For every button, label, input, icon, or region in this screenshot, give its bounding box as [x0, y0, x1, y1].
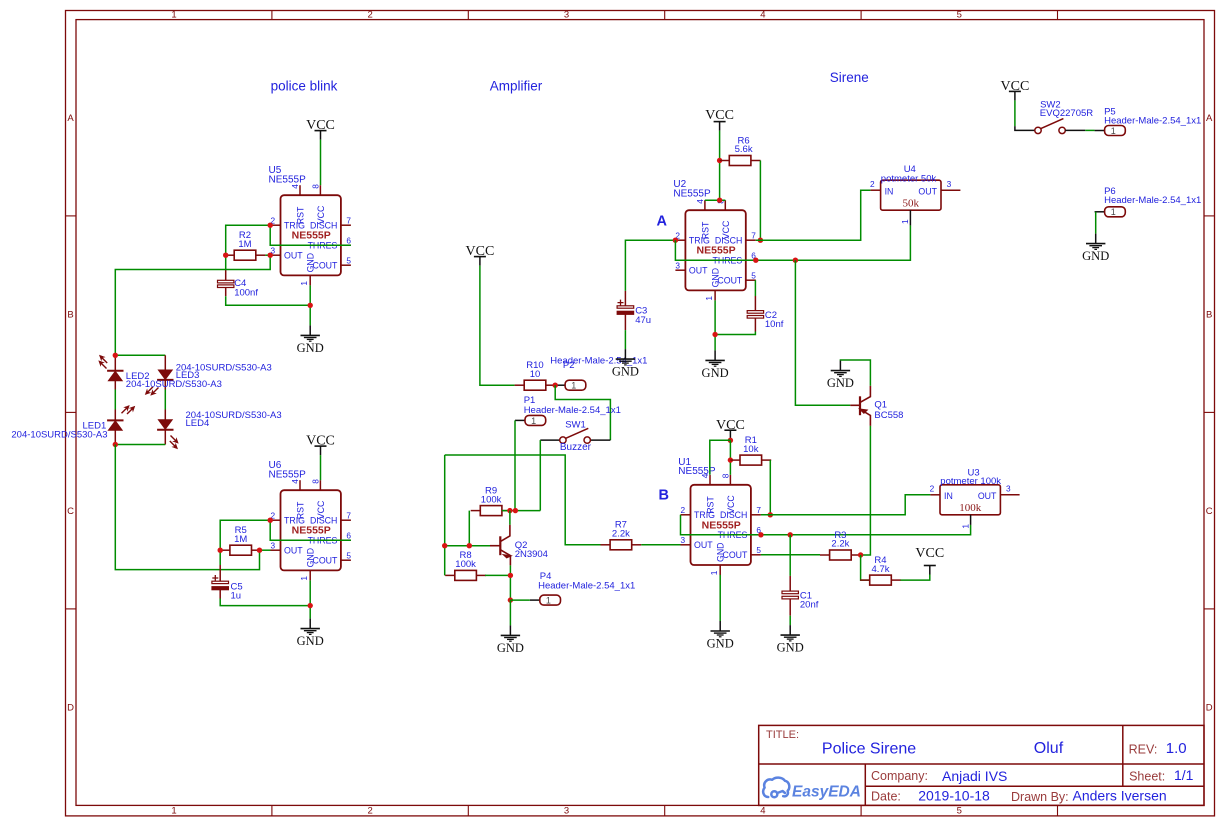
wire VCC down to U2 pins 4+8	[719, 131, 721, 201]
capacitor C2	[747, 311, 763, 319]
svg-text:VCC: VCC	[1001, 79, 1030, 94]
wire C1 bottom pin	[789, 599, 791, 616]
svg-text:potmeter 100k: potmeter 100k	[940, 476, 1001, 487]
ruler numbers top	[171, 10, 962, 21]
capacitor C1	[782, 591, 798, 599]
svg-text:5: 5	[957, 806, 962, 817]
U2 pin stubs	[675, 200, 755, 300]
power symbol VCC (R4 pullup)	[915, 546, 944, 575]
timer IC U5 NE555P	[271, 184, 352, 286]
svg-text:OUT: OUT	[918, 187, 937, 197]
power symbol VCC (SW2 feed)	[1001, 79, 1030, 100]
transistor Q2 2N3904 (NPN)	[490, 525, 511, 566]
junction U2 pin8 top node	[717, 198, 722, 203]
svg-text:Police Sirene: Police Sirene	[822, 740, 916, 757]
wire R6 right down to DISCH	[759, 161, 761, 241]
transistor Q1 BC558 (PNP)	[850, 386, 870, 426]
svg-text:NE555P: NE555P	[269, 469, 307, 480]
wire U2 DISCH line to U4	[756, 190, 871, 240]
rev/sheet column divider	[1122, 725, 1124, 786]
wire R7 to U1 OUT	[641, 544, 680, 546]
svg-text:7: 7	[346, 510, 351, 520]
svg-text:100k: 100k	[455, 559, 476, 570]
junction U5 GND node	[308, 303, 313, 308]
capacitor C4 100nf	[218, 280, 234, 287]
junction C1 branch node	[788, 532, 793, 537]
wire SW2 to P5	[1085, 129, 1094, 131]
junction U6 OUT branch node	[257, 548, 262, 553]
svg-text:VCC: VCC	[716, 418, 745, 433]
wire C1 to GND	[789, 616, 791, 625]
wire U1 TRIG-THRES jog + line to U3 wiper	[681, 515, 971, 535]
U6 body	[281, 490, 341, 570]
header P1 Header-Male-2.54_1x1	[515, 415, 546, 425]
resistor R9 100k	[471, 485, 512, 515]
junction R6-DISCH node	[758, 238, 763, 243]
wire C1 top pin	[789, 576, 791, 591]
svg-text:Company:: Company:	[871, 769, 928, 783]
junction U6 GND node	[308, 603, 313, 608]
svg-text:1u: 1u	[231, 591, 242, 602]
svg-text:OUT: OUT	[689, 266, 708, 276]
wire R9 right to collector node	[502, 510, 540, 512]
svg-text:Header-Male-2.54_1x1: Header-Male-2.54_1x1	[524, 405, 621, 416]
junction U2 THRES node	[753, 258, 758, 263]
header P5 Header-Male-2.54_1x1	[1095, 126, 1126, 136]
U1 pin stubs	[681, 475, 761, 575]
wire C4 bottom pin	[225, 288, 227, 297]
wire C1 branch down	[789, 535, 791, 576]
svg-text:Anjadi IVS: Anjadi IVS	[942, 768, 1007, 784]
svg-text:potmeter 50k: potmeter 50k	[881, 174, 937, 185]
SW1 blade	[566, 428, 589, 438]
svg-text:Sheet:: Sheet:	[1129, 769, 1165, 783]
svg-text:A: A	[67, 113, 74, 124]
logo cell divider	[864, 764, 866, 805]
Q1 emitter arrowhead (PNP, points to base)	[860, 409, 867, 413]
wire U2 TRIG-THRES jog + ramp line	[675, 225, 910, 260]
svg-text:GND: GND	[716, 542, 726, 562]
svg-text:10: 10	[530, 369, 541, 380]
svg-text:1M: 1M	[238, 239, 251, 250]
svg-text:OUT: OUT	[284, 251, 303, 261]
junction R5 left rail node	[218, 548, 223, 553]
svg-text:100k: 100k	[959, 502, 982, 514]
junction U1 THRES node	[758, 532, 763, 537]
svg-text:2: 2	[367, 10, 372, 21]
svg-text:COUT: COUT	[717, 276, 743, 286]
wire U6 pin1 to GND	[309, 580, 311, 618]
wire LED2 top pin	[114, 355, 116, 371]
svg-text:100k: 100k	[481, 494, 502, 505]
ground symbol GND (U6)	[297, 619, 324, 649]
svg-text:VCC: VCC	[306, 434, 335, 449]
ruler numbers bottom	[171, 806, 962, 817]
svg-text:1: 1	[1111, 207, 1116, 217]
resistor R2 1M	[225, 230, 266, 260]
svg-text:5: 5	[756, 545, 761, 555]
svg-text:D: D	[1206, 703, 1213, 714]
svg-text:Q1: Q1	[874, 400, 887, 411]
svg-text:Sirene: Sirene	[830, 70, 869, 85]
wire LED1 bottom pin	[114, 430, 116, 444]
svg-text:EVQ22705R: EVQ22705R	[1040, 108, 1093, 119]
svg-text:BC558: BC558	[874, 410, 903, 421]
svg-text:4: 4	[695, 199, 705, 204]
junction R8-emitter node	[508, 573, 513, 578]
wire feedback line to R7	[445, 455, 601, 545]
junction P4 node	[508, 597, 513, 602]
svg-text:3: 3	[1006, 483, 1011, 493]
svg-text:6: 6	[346, 235, 351, 245]
logo key stem	[777, 791, 785, 793]
LED LED2	[107, 371, 123, 381]
svg-text:COUT: COUT	[722, 550, 748, 560]
svg-text:1M: 1M	[234, 534, 247, 545]
wire U1 DISCH line to U3	[761, 495, 931, 515]
wire LED bottom crossbar	[115, 444, 165, 446]
svg-text:COUT: COUT	[312, 556, 338, 566]
junction P1-collector node B	[513, 508, 518, 513]
SW2 blade	[1041, 119, 1064, 129]
header P2 Header-Male-2.54_1x1	[555, 380, 586, 390]
capacitor C3 (polarized)	[617, 300, 634, 315]
wire R8 right to emitter node	[485, 574, 510, 576]
svg-text:3: 3	[681, 535, 686, 545]
U1 body	[691, 485, 751, 565]
svg-text:2N3904: 2N3904	[515, 549, 548, 560]
svg-text:1: 1	[531, 416, 536, 426]
wire Q1 emitter down to R3-R4 node	[861, 426, 871, 555]
junction U6 TRIG node	[268, 518, 273, 523]
junction R3-R4-Q1 node	[858, 552, 863, 557]
svg-text:1: 1	[960, 524, 970, 529]
svg-text:GND: GND	[306, 548, 316, 568]
wire LED2-LED1 link wire	[114, 390, 116, 410]
wire C3 to GND	[624, 330, 626, 349]
svg-text:B: B	[67, 310, 73, 321]
junction R1 left node	[728, 457, 733, 462]
timer IC U2 NE555P	[675, 199, 756, 301]
svg-text:Buzzer: Buzzer	[560, 442, 592, 453]
wire U5 pin1 to GND node	[309, 285, 311, 325]
wire C2 top pin	[754, 296, 756, 311]
svg-text:1/1: 1/1	[1174, 767, 1194, 783]
wire U2 RST-VCC jumper	[705, 199, 725, 201]
resistor R1 10k	[730, 435, 771, 465]
wire node to P4	[510, 599, 529, 601]
wire LED2-LED1 link lower pin	[114, 381, 116, 390]
svg-text:4: 4	[760, 806, 765, 817]
junction LED top node	[113, 353, 118, 358]
svg-text:D: D	[67, 703, 74, 714]
wire U2 TRIG to C3	[625, 240, 675, 291]
wire C5 to GND node	[220, 599, 310, 606]
timer IC U1 NE555P	[681, 473, 762, 575]
svg-text:10nf: 10nf	[765, 319, 784, 330]
svg-text:5: 5	[957, 10, 962, 21]
wire LED1 top pin	[114, 410, 116, 421]
svg-text:3: 3	[271, 540, 276, 550]
svg-text:1: 1	[299, 576, 309, 581]
switch SW1	[540, 428, 610, 443]
junction rail-base node	[442, 543, 447, 548]
ground symbol GND (P6)	[1082, 234, 1109, 264]
svg-text:NE555P: NE555P	[292, 525, 331, 537]
power symbol VCC (U5 supply)	[306, 118, 335, 139]
LED2 emission arrows	[95, 354, 112, 371]
resistor R5 1M	[220, 525, 261, 555]
wire U5 TRIG-THRES jog	[270, 225, 351, 245]
potentiometer U4 potmeter 50k	[870, 179, 960, 226]
svg-text:4: 4	[760, 10, 765, 21]
ground symbol GND (U2)	[702, 350, 729, 380]
wire LED3 top pin	[164, 355, 166, 370]
svg-text:Header-Male-2.54_1x1: Header-Male-2.54_1x1	[538, 580, 635, 591]
svg-text:47u: 47u	[635, 315, 651, 326]
junction R1-DISCH node	[768, 512, 773, 517]
wire VCC to U1 node	[729, 439, 731, 440]
U5 body	[281, 195, 341, 275]
resistor R6 5.6k	[720, 135, 761, 165]
svg-text:4.7k: 4.7k	[872, 564, 890, 575]
resistor R7 2.2k	[601, 520, 642, 550]
svg-text:8: 8	[310, 184, 320, 189]
potentiometer U3 potmeter 100k	[930, 483, 1020, 528]
svg-text:SW1: SW1	[565, 420, 586, 431]
capacitor C5 1u (polarized)	[212, 575, 229, 590]
svg-text:C: C	[1206, 506, 1213, 517]
junction R6 left node	[717, 158, 722, 163]
svg-text:A: A	[657, 214, 668, 230]
LED1 emission arrows	[120, 401, 137, 418]
LED3 emission arrows	[144, 383, 161, 400]
svg-text:3: 3	[947, 179, 952, 189]
Q2 emitter arrowhead	[504, 555, 511, 558]
wire LED3-LED4 link pin	[164, 380, 166, 390]
logo key circle	[771, 791, 777, 797]
wire C3 top pin	[624, 291, 626, 306]
svg-text:1: 1	[900, 219, 910, 224]
wire R2 right to U5 OUT	[265, 254, 270, 256]
svg-text:GND: GND	[306, 253, 316, 273]
svg-text:1: 1	[1111, 126, 1116, 136]
svg-text:1: 1	[571, 381, 576, 391]
wire C4 to GND node	[226, 296, 311, 305]
wire Q1 collector to GND	[840, 360, 870, 386]
svg-text:2.2k: 2.2k	[831, 539, 849, 550]
wire ramp branch down to Q1 base	[795, 260, 850, 405]
wire Q2 collector up	[509, 511, 511, 525]
svg-text:2: 2	[367, 806, 372, 817]
svg-text:Date:: Date:	[871, 790, 901, 804]
svg-text:B: B	[1206, 310, 1212, 321]
wire VCC down to R10	[480, 266, 515, 386]
svg-text:A: A	[1206, 113, 1213, 124]
wire LED4 top pin	[164, 410, 166, 421]
wire VCC to U1 pin 8	[729, 440, 731, 475]
junction LED bottom node	[113, 442, 118, 447]
wire Q2 emitter down	[509, 565, 511, 600]
svg-text:2: 2	[930, 483, 935, 493]
ruler column ticks bottom	[272, 805, 1058, 816]
C3 plus sign	[618, 300, 624, 306]
wire U1 pin1 to GND	[719, 575, 721, 621]
svg-text:NE555P: NE555P	[269, 174, 307, 185]
svg-text:1: 1	[171, 806, 176, 817]
svg-text:2: 2	[870, 179, 875, 189]
svg-text:3: 3	[564, 10, 569, 21]
ruler row ticks left	[66, 216, 77, 609]
logo cloud outline	[763, 778, 789, 797]
timer IC U6 NE555P	[271, 479, 352, 581]
svg-text:10k: 10k	[743, 444, 759, 455]
junction ramp branch node	[793, 258, 798, 263]
svg-text:COUT: COUT	[312, 261, 338, 271]
wire C3 bottom pin	[624, 314, 626, 330]
svg-text:VCC: VCC	[915, 546, 944, 561]
svg-text:204-10SURD/S530-A3: 204-10SURD/S530-A3	[126, 379, 222, 390]
wire U2 COUT down	[754, 280, 756, 296]
ruler letters left	[67, 113, 74, 714]
wire VCC down to SW2	[1014, 100, 1016, 126]
wire U1 COUT to R3	[761, 554, 820, 556]
junction U5 OUT node	[268, 253, 273, 258]
svg-text:1: 1	[546, 596, 551, 606]
wire U6 TRIG-THRES jog	[270, 520, 351, 540]
wire VCC to U6 pin 8	[320, 455, 322, 480]
svg-text:2019-10-18: 2019-10-18	[918, 788, 990, 804]
resistor R8 100k	[445, 550, 486, 580]
resistor R4 4.7k	[860, 555, 901, 585]
junction U2 TRIG node	[673, 238, 678, 243]
switch SW2 EVQ22705R	[1035, 119, 1086, 134]
power symbol VCC (amplifier rail)	[466, 244, 495, 265]
svg-text:LED3: LED3	[176, 370, 200, 381]
ground symbol GND (C3)	[612, 349, 639, 379]
wire R4 to VCC	[901, 575, 930, 581]
ruler row ticks right	[1204, 216, 1215, 609]
wire R10 node down to SW1 right	[555, 385, 610, 440]
svg-text:7: 7	[751, 230, 756, 240]
wire R3 node down to R4	[861, 555, 870, 580]
ground symbol GND (U1)	[707, 621, 734, 651]
svg-text:Oluf: Oluf	[1034, 740, 1064, 757]
svg-text:1: 1	[704, 296, 714, 301]
wire R5 right lead to OUT	[261, 549, 270, 551]
LED4 emission arrows	[166, 434, 183, 451]
wire VCC to U5 pin 8	[320, 140, 322, 186]
wire base line	[445, 545, 490, 547]
wire C2 bottom pin	[754, 318, 756, 331]
svg-text:50k: 50k	[903, 197, 920, 209]
wire U5 OUT down to LED line	[115, 255, 270, 355]
wire LED bottom to U6 OUT line	[115, 445, 259, 570]
svg-text:TITLE:: TITLE:	[766, 729, 799, 741]
svg-text:B: B	[659, 488, 669, 504]
junction U1 VCC node	[728, 438, 733, 443]
C5 plus sign	[212, 575, 218, 581]
svg-text:OUT: OUT	[694, 540, 713, 550]
resistor R10 10	[515, 360, 556, 390]
svg-text:7: 7	[346, 215, 351, 225]
junction R9-collector node A	[507, 508, 512, 513]
wire C2 to U2 GND node	[715, 332, 755, 335]
svg-text:Anders Iversen: Anders Iversen	[1073, 788, 1167, 804]
wire U2 pin1 to GND	[714, 300, 716, 350]
wire U6 TRIG to left rail	[220, 520, 270, 565]
LED LED4	[157, 420, 173, 430]
ruler letters right	[1206, 113, 1213, 714]
svg-text:NE555P: NE555P	[292, 230, 331, 242]
wire C5 top pin	[219, 565, 221, 581]
svg-text:5: 5	[346, 550, 351, 560]
company/date row divider	[865, 785, 1204, 787]
svg-text:GND: GND	[711, 268, 721, 288]
wire P6 down to GND	[1095, 212, 1097, 234]
ground symbol GND (U5)	[297, 325, 324, 355]
junction R9-base node	[467, 543, 472, 548]
svg-text:IN: IN	[944, 491, 953, 501]
wire VCC corner to SW2 left	[1015, 126, 1035, 130]
svg-text:3: 3	[564, 806, 569, 817]
power symbol VCC (U6 supply)	[306, 434, 335, 455]
wire R1 right down to DISCH	[769, 460, 771, 515]
svg-text:1.0: 1.0	[1166, 740, 1187, 757]
svg-text:6: 6	[346, 530, 351, 540]
wire R9 left drop to base line	[468, 511, 470, 546]
wire LED4 bottom pin	[164, 430, 166, 445]
wire U5 TRIG to left rail	[226, 225, 271, 269]
svg-text:5: 5	[346, 255, 351, 265]
resistor R3 2.2k	[820, 530, 861, 560]
ruler column ticks top	[272, 11, 1058, 20]
junction U5 TRIG node	[268, 223, 273, 228]
svg-text:Amplifier: Amplifier	[490, 79, 543, 94]
ground symbol GND (Q2 emitter)	[497, 625, 524, 655]
svg-text:2: 2	[681, 505, 686, 515]
svg-text:LED4: LED4	[186, 418, 210, 429]
power symbol VCC (U1 supply)	[716, 418, 745, 439]
EasyEDA logo	[763, 778, 789, 798]
wire VCC to U1 pin 4	[710, 440, 731, 475]
svg-text:1: 1	[709, 570, 719, 575]
svg-text:100nf: 100nf	[234, 287, 258, 298]
svg-text:Drawn By:: Drawn By:	[1011, 790, 1069, 804]
svg-text:police blink: police blink	[271, 79, 338, 94]
svg-text:OUT: OUT	[284, 546, 303, 556]
svg-text:NE555P: NE555P	[702, 519, 741, 531]
U6 pin stubs	[271, 480, 351, 580]
ground symbol GND (Q1 collector)	[827, 361, 854, 391]
LED LED1	[107, 420, 123, 430]
LED LED3	[157, 370, 173, 380]
junction R2 left rail node	[223, 253, 228, 258]
svg-text:IN: IN	[885, 187, 894, 197]
wire P4 node to GND	[509, 600, 511, 625]
svg-text:8: 8	[310, 479, 320, 484]
svg-text:1: 1	[299, 281, 309, 286]
svg-text:VCC: VCC	[306, 118, 335, 133]
wire C4 top pin	[225, 270, 227, 281]
svg-text:VCC: VCC	[705, 108, 734, 123]
svg-text:NE555P: NE555P	[697, 245, 736, 257]
svg-text:VCC: VCC	[466, 244, 495, 259]
header P4 Header-Male-2.54_1x1	[530, 595, 561, 605]
wire C5 bottom pin	[219, 590, 221, 599]
junction U2 GND node	[712, 332, 717, 337]
svg-text:5: 5	[751, 270, 756, 280]
